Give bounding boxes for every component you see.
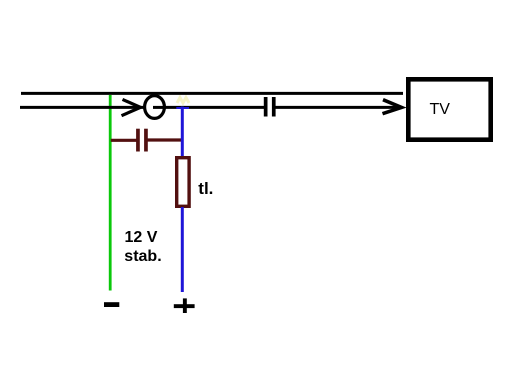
capacitor C2 right plate	[272, 97, 276, 117]
junction: blue tick over coax line	[176, 107, 189, 109]
minus terminal symbol	[104, 302, 119, 307]
plus terminal symbol vertical bar	[183, 298, 187, 313]
svg-text:tl.: tl.	[198, 179, 213, 198]
capacitor C1 left wire (maroon)	[111, 139, 137, 142]
svg-text:stab.: stab.	[124, 248, 161, 265]
resistor R1 (tl.)	[177, 158, 189, 207]
wire: top coax line	[21, 92, 403, 95]
arrow: signal direction into amplifier	[122, 99, 141, 115]
svg-text:TV: TV	[430, 101, 451, 118]
TV box	[408, 79, 490, 139]
wire: bottom coax line, capacitor C2 to TV	[276, 106, 400, 109]
wire: bottom coax line, left segment	[20, 106, 144, 109]
capacitor C2 left plate	[264, 97, 268, 117]
amplifier circle U1	[145, 96, 165, 119]
wire: blue positive lead, bottom segment	[181, 207, 184, 292]
wire: bottom coax line, amplifier to capacitor C2	[165, 106, 266, 109]
wire: blue positive lead, top segment	[181, 107, 184, 158]
capacitor C1 left plate	[136, 129, 140, 152]
faint yellow mark above blue junction	[177, 98, 189, 104]
wire: green negative supply lead	[109, 95, 112, 291]
svg-text:12 V: 12 V	[125, 229, 158, 246]
wire: stub inside amplifier circle	[153, 106, 166, 109]
capacitor C1 right plate	[144, 129, 148, 152]
capacitor C1 right wire (maroon)	[147, 138, 184, 141]
arrow: signal into TV	[383, 100, 402, 114]
plus terminal symbol horizontal bar	[174, 304, 195, 308]
